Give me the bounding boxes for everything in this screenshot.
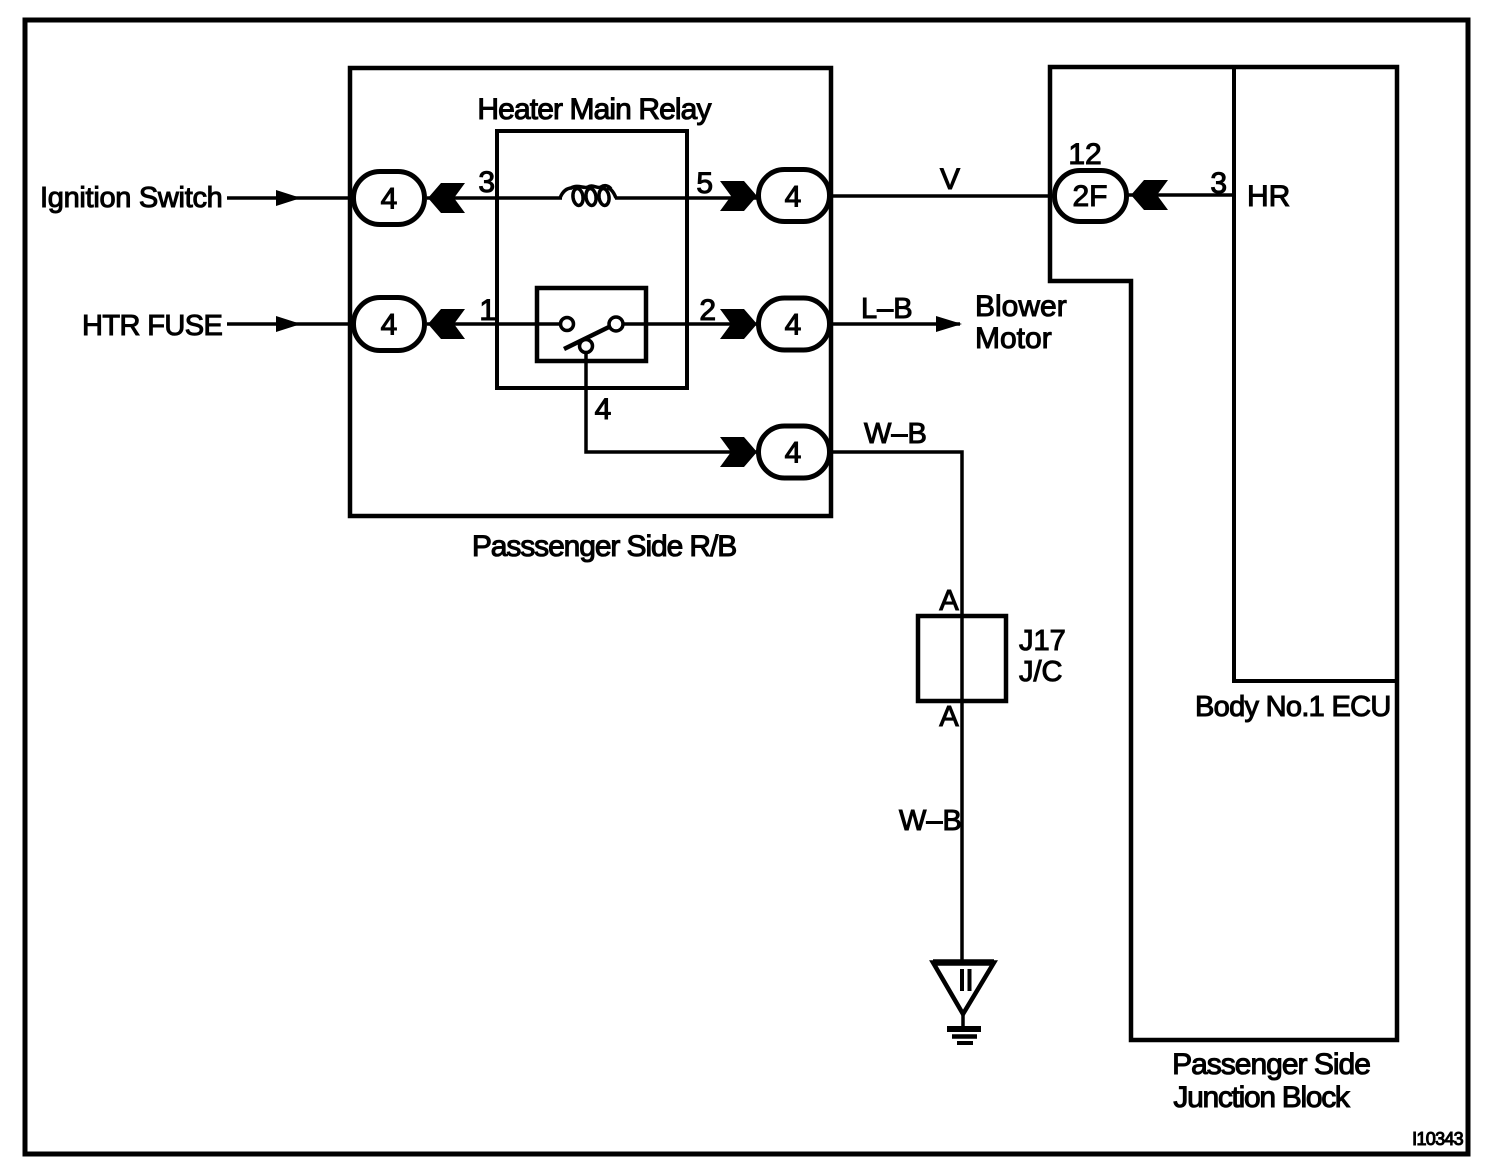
svg-text:Ignition Switch: Ignition Switch — [40, 182, 223, 214]
svg-text:3: 3 — [478, 166, 495, 199]
svg-text:W–B: W–B — [864, 418, 927, 450]
svg-text:4: 4 — [381, 183, 398, 216]
svg-text:L–B: L–B — [861, 293, 913, 325]
svg-text:A: A — [939, 585, 959, 617]
svg-text:HR: HR — [1247, 180, 1290, 213]
svg-text:J17: J17 — [1019, 625, 1066, 657]
svg-text:V: V — [940, 163, 960, 196]
svg-text:HTR FUSE: HTR FUSE — [82, 310, 222, 342]
svg-text:Passsenger Side R/B: Passsenger Side R/B — [472, 530, 736, 563]
svg-text:4: 4 — [785, 181, 802, 214]
svg-text:Junction Block: Junction Block — [1173, 1081, 1351, 1114]
svg-text:Passenger Side: Passenger Side — [1172, 1048, 1370, 1081]
svg-text:4: 4 — [595, 393, 612, 426]
svg-text:4: 4 — [381, 309, 398, 342]
svg-text:4: 4 — [785, 309, 802, 342]
svg-text:I10343: I10343 — [1412, 1129, 1464, 1149]
svg-text:Body No.1 ECU: Body No.1 ECU — [1195, 691, 1391, 723]
svg-text:5: 5 — [696, 167, 713, 200]
svg-text:1: 1 — [479, 294, 496, 327]
svg-text:Motor: Motor — [975, 322, 1052, 355]
svg-text:A: A — [939, 701, 959, 733]
svg-text:Heater Main Relay: Heater Main Relay — [477, 93, 711, 126]
svg-text:2: 2 — [699, 294, 716, 327]
svg-text:J/C: J/C — [1019, 656, 1063, 688]
svg-text:3: 3 — [1210, 167, 1227, 200]
svg-text:4: 4 — [785, 437, 802, 470]
svg-text:12: 12 — [1068, 138, 1101, 171]
svg-text:Blower: Blower — [975, 290, 1067, 323]
svg-text:W–B: W–B — [899, 805, 962, 837]
svg-text:2F: 2F — [1072, 180, 1107, 213]
